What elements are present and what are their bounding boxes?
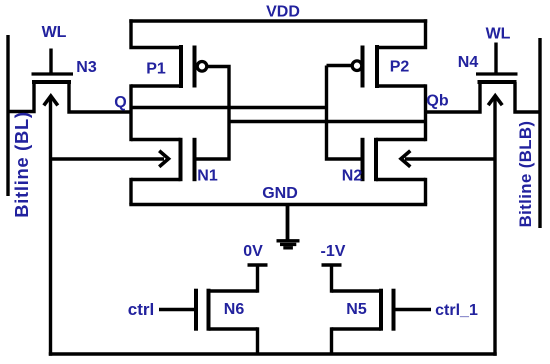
svg-text:N4: N4 — [458, 54, 479, 71]
svg-text:P2: P2 — [390, 59, 410, 76]
svg-text:N2: N2 — [342, 168, 363, 185]
svg-text:Bitline (BL): Bitline (BL) — [11, 111, 32, 217]
svg-text:VDD: VDD — [266, 4, 300, 21]
svg-text:ctrl_1: ctrl_1 — [435, 302, 478, 319]
svg-text:0V: 0V — [243, 243, 263, 260]
svg-text:-1V: -1V — [321, 243, 346, 260]
svg-text:Bitline (BLB): Bitline (BLB) — [516, 121, 535, 228]
svg-text:P1: P1 — [146, 61, 166, 78]
svg-text:N6: N6 — [224, 301, 245, 318]
svg-text:WL: WL — [486, 26, 511, 43]
svg-text:N3: N3 — [76, 59, 97, 76]
svg-text:Q: Q — [114, 94, 126, 111]
svg-text:N1: N1 — [197, 168, 218, 185]
svg-text:N5: N5 — [346, 301, 367, 318]
svg-text:GND: GND — [262, 185, 298, 202]
svg-text:Qb: Qb — [426, 93, 448, 110]
svg-text:ctrl: ctrl — [128, 300, 154, 319]
svg-text:WL: WL — [42, 24, 67, 41]
